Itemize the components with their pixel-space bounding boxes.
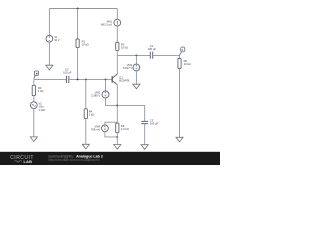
node junction R5 bottom [116, 136, 118, 138]
ground right column [176, 137, 183, 142]
wire VM1 stub [135, 55, 137, 64]
capacitor C3 [141, 121, 148, 123]
ammeter AM1 [114, 19, 121, 26]
wire left chain node down [33, 79, 35, 85]
svg-text:10 kΩ: 10 kΩ [121, 45, 128, 49]
capacitor C2 [66, 76, 68, 83]
svg-text:LAB: LAB [24, 160, 33, 164]
wire V1 to ground [48, 42, 50, 65]
resistor R2 [116, 42, 119, 50]
wire R6 to ground [179, 69, 181, 138]
resistor R3 [32, 85, 35, 95]
svg-text:863.2 µA: 863.2 µA [101, 23, 112, 27]
svg-text:6.817 V: 6.817 V [123, 66, 132, 70]
svg-text:100 µF: 100 µF [150, 122, 159, 126]
wire C1 to right column [153, 54, 180, 56]
logo wave [15, 161, 22, 163]
voltmeter VM2 [105, 79, 107, 91]
svg-text:10 V: 10 V [54, 38, 60, 42]
transistor Q1 [111, 76, 113, 82]
wire VM1 to ground [135, 71, 137, 84]
footer bar [0, 152, 220, 165]
svg-text:10 kΩ: 10 kΩ [184, 62, 191, 66]
ground under R4 [82, 144, 89, 149]
wire ammeter column top [116, 9, 118, 20]
wire ammeter to R2 [116, 26, 118, 42]
svg-text:1 kΩ: 1 kΩ [89, 113, 95, 117]
resistor R1 [76, 39, 79, 48]
wire base row right of C2 [69, 78, 112, 80]
wire top rail [49, 8, 117, 10]
resistor R4 [84, 109, 87, 119]
flag OUT [180, 52, 182, 56]
node junction emitter row [116, 104, 118, 106]
svg-text:768 mV: 768 mV [91, 128, 100, 132]
node junction base/R4 [85, 78, 87, 80]
wire V1 column top [48, 9, 50, 36]
wire collector up [116, 55, 118, 74]
svg-text:3.389 V: 3.389 V [91, 94, 100, 98]
wire base row left [34, 78, 67, 80]
svg-text:3.3 kΩ: 3.3 kΩ [121, 127, 129, 131]
node junction VM1 [135, 54, 137, 56]
svg-text:1 kΩ: 1 kΩ [38, 89, 44, 93]
wire R1 top [77, 9, 79, 40]
wire collector row [117, 54, 150, 56]
resistor R5 emitter [116, 123, 119, 133]
ground under C3 [141, 145, 148, 150]
flag IN [34, 75, 36, 78]
svg-text:100 µF: 100 µF [63, 71, 72, 75]
wire R2 bottom to collector node [116, 50, 118, 55]
ground under R5 [114, 145, 121, 150]
wire emitter row right [117, 105, 144, 121]
wire V2 to ground [33, 109, 35, 137]
svg-text:1 kHz: 1 kHz [39, 108, 47, 112]
source V2 [30, 102, 37, 109]
node junction base/VM2 [105, 78, 107, 80]
wire R5 to ground [116, 133, 118, 145]
capacitor C1 [150, 52, 152, 59]
voltmeter VM1 [133, 64, 140, 71]
wire R1 bottom to base row [77, 48, 79, 80]
wire VM2 bottom to emitter row [106, 98, 118, 105]
wire R4 to ground [85, 119, 87, 145]
ground under V2 [30, 137, 37, 142]
svg-text:BC547B: BC547B [119, 79, 129, 83]
node junction base/R1 [77, 78, 79, 80]
svg-text:100 µF: 100 µF [148, 47, 157, 51]
ground under VM1 [133, 84, 140, 89]
voltmeter VM3 [105, 122, 117, 125]
wire C3 to ground [144, 124, 146, 145]
wire R3 to V2 [33, 96, 35, 102]
svg-text:10 kΩ: 10 kΩ [82, 42, 89, 46]
wire VM3 bottom to R5 bottom [105, 132, 117, 137]
svg-text:http://circuitlab.com/c4vv38q6: http://circuitlab.com/c4vv38q6kw2e4 [48, 158, 99, 162]
voltage source V1 [46, 35, 53, 42]
ground under V1 [46, 65, 53, 70]
resistor R6 [178, 59, 181, 69]
wire emitter down [116, 85, 118, 123]
wire right column to R6 [179, 55, 181, 58]
node junction top rail / R1 [77, 8, 79, 10]
wire divider chain down [85, 79, 87, 108]
